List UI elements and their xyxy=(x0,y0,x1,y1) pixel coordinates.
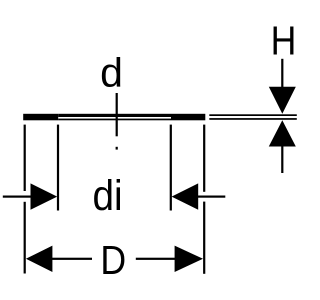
di left tail line xyxy=(3,196,31,198)
seal bar middle top edge xyxy=(58,114,171,117)
D left arrow xyxy=(26,246,53,272)
di right extension line xyxy=(170,125,172,211)
centerline dot xyxy=(116,147,118,150)
H extension top line xyxy=(209,114,296,116)
centerline dash xyxy=(116,93,118,136)
seal bar middle bottom edge xyxy=(58,119,171,121)
seal bar left solid section xyxy=(23,114,58,121)
di right tail line xyxy=(198,196,225,198)
H arrow up xyxy=(269,120,296,146)
svg-text:d: d xyxy=(100,50,123,96)
D left extension line upper segment xyxy=(24,125,26,191)
D left extension line lower segment xyxy=(24,202,26,274)
H arrow down xyxy=(269,87,296,114)
D dimension line left part xyxy=(52,258,92,260)
di left extension line xyxy=(57,125,59,211)
H lower vertical line xyxy=(281,146,283,173)
svg-text:H: H xyxy=(271,18,297,64)
D right extension line lower segment xyxy=(203,202,205,274)
svg-text:di: di xyxy=(93,171,123,219)
svg-text:D: D xyxy=(100,238,126,284)
di right arrow xyxy=(172,183,199,209)
H upper vertical line xyxy=(281,59,283,88)
H extension bottom line xyxy=(209,118,296,120)
D right arrow xyxy=(175,246,203,272)
D right extension line upper segment xyxy=(203,125,205,192)
seal bar right solid section xyxy=(171,114,205,121)
di left arrow xyxy=(31,183,58,209)
D dimension line right part xyxy=(136,258,175,260)
